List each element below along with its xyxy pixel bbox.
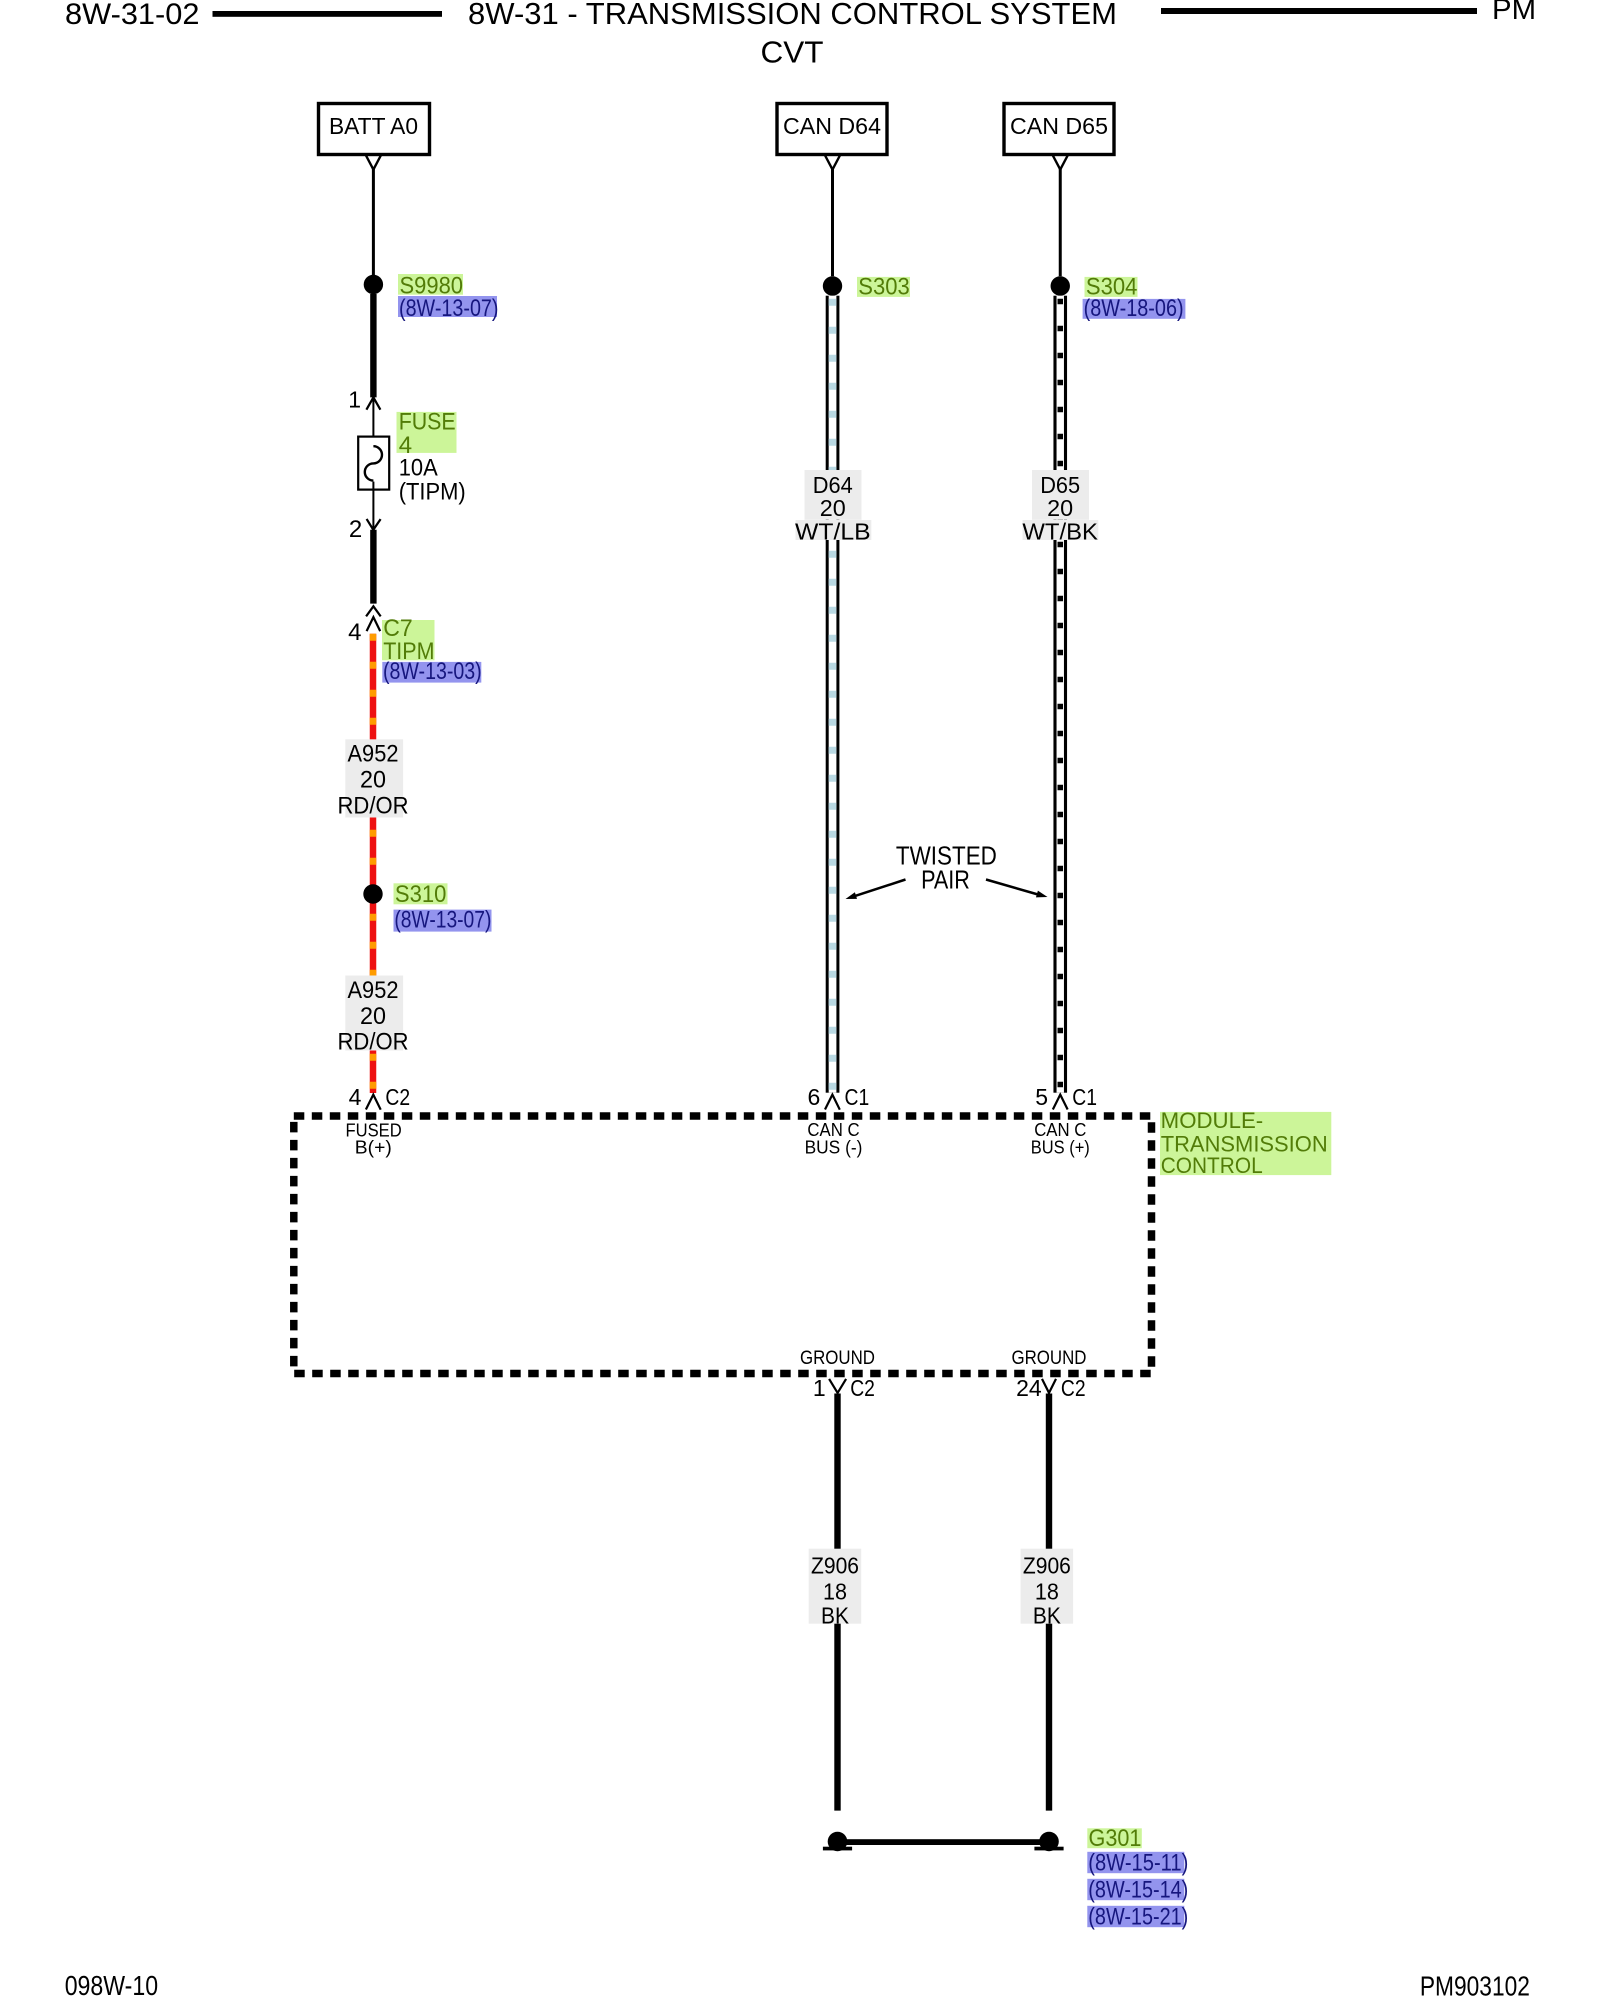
svg-text:PM: PM [1492, 0, 1536, 26]
svg-text:A952: A952 [348, 741, 399, 768]
pin function CAN C BUS (-) [805, 1120, 863, 1158]
svg-text:RD/OR: RD/OR [338, 793, 409, 820]
label S310 [394, 881, 448, 908]
svg-text:20: 20 [360, 767, 386, 794]
svg-text:S303: S303 [858, 273, 910, 300]
svg-text:5: 5 [1035, 1084, 1048, 1110]
reference (8W-18-06) for S304 [1083, 295, 1186, 322]
svg-text:(8W-13-07): (8W-13-07) [394, 907, 491, 934]
wire label D65 20 WT/BK [1022, 470, 1098, 545]
svg-text:18: 18 [823, 1579, 847, 1605]
wire fuse to pin 2 [372, 482, 374, 530]
connector chevron pin 1 C2 [829, 1379, 846, 1393]
svg-text:4: 4 [349, 1084, 362, 1110]
svg-text:C1: C1 [1072, 1084, 1097, 1110]
svg-text:(8W-15-21): (8W-15-21) [1088, 1904, 1188, 1931]
svg-text:CAN D65: CAN D65 [1010, 113, 1108, 139]
svg-text:20: 20 [360, 1003, 386, 1030]
wire label Z906 18 BK (right) [1021, 1549, 1074, 1629]
ground symbol bar (left) [823, 1847, 852, 1851]
svg-text:RD/OR: RD/OR [338, 1029, 409, 1056]
connector chevron pin 24 C2 [1042, 1379, 1056, 1393]
svg-text:PAIR: PAIR [921, 864, 970, 894]
label FUSE 4 [397, 408, 457, 458]
connector V under CAN D64 [825, 156, 840, 170]
svg-text:A952: A952 [348, 977, 399, 1004]
node BATT A0 box [319, 104, 430, 155]
svg-text:8W-31-02: 8W-31-02 [65, 0, 200, 31]
wire pin 1 to fuse [372, 397, 374, 446]
svg-text:8W-31 - TRANSMISSION CONTROL S: 8W-31 - TRANSMISSION CONTROL SYSTEM [468, 0, 1117, 31]
svg-text:(TIPM): (TIPM) [399, 479, 466, 506]
svg-text:CVT: CVT [761, 34, 824, 69]
reference (8W-13-07) for S310 [394, 907, 492, 934]
connector chevron pin 2 [367, 519, 381, 530]
svg-text:S310: S310 [395, 881, 447, 908]
node CAN D65 box [1004, 104, 1114, 155]
svg-text:C2: C2 [850, 1375, 875, 1401]
wire BATT A0 to splice S9980 [372, 168, 375, 276]
svg-text:20: 20 [820, 495, 846, 521]
connector V under BATT A0 [366, 156, 381, 170]
svg-text:20: 20 [1047, 495, 1073, 521]
svg-text:18: 18 [1035, 1579, 1059, 1605]
pin function FUSED B(+) [346, 1121, 402, 1158]
header left rule [213, 11, 443, 17]
leader arrow to D64 wire [846, 880, 906, 900]
svg-text:Z906: Z906 [1023, 1553, 1071, 1579]
svg-text:CONTROL: CONTROL [1161, 1153, 1263, 1178]
svg-text:CAN D64: CAN D64 [783, 113, 881, 139]
svg-text:BUS (+): BUS (+) [1031, 1137, 1090, 1157]
svg-text:10A: 10A [399, 455, 438, 482]
svg-text:MODULE-: MODULE- [1161, 1108, 1264, 1133]
label S9980 [398, 273, 463, 300]
connector chevron pin 5 C1 [1053, 1095, 1068, 1110]
svg-text:(8W-13-07): (8W-13-07) [399, 295, 499, 322]
wire CAN D65 to splice S304 [1059, 168, 1062, 276]
label S303 [857, 273, 910, 300]
svg-text:6: 6 [808, 1084, 821, 1110]
svg-text:BK: BK [1033, 1603, 1062, 1629]
module-transmission control dashed box [294, 1116, 1152, 1374]
ground terminal dot (right) [1039, 1832, 1059, 1852]
svg-text:(8W-15-11): (8W-15-11) [1088, 1850, 1188, 1877]
svg-text:(8W-13-03): (8W-13-03) [383, 658, 482, 685]
svg-text:D64: D64 [813, 472, 853, 498]
reference (8W-15-21) for G301 [1087, 1904, 1188, 1931]
svg-text:PM903102: PM903102 [1420, 1970, 1530, 2000]
svg-text:098W-10: 098W-10 [65, 1970, 158, 2000]
svg-text:BATT A0: BATT A0 [329, 113, 418, 139]
fuse element S-curve [365, 446, 382, 480]
svg-text:1: 1 [813, 1375, 826, 1401]
splice S304 [1051, 276, 1070, 295]
wire label A952 20 RD/OR (lower) [338, 976, 409, 1056]
wire Z906 18 BK (right) [1046, 1394, 1052, 1811]
connector chevron pin 1 [366, 397, 380, 409]
svg-text:2: 2 [349, 516, 362, 543]
svg-text:4: 4 [348, 619, 361, 646]
svg-text:D65: D65 [1040, 472, 1080, 498]
fuse FUSE 4 10A (TIPM) box [358, 437, 389, 490]
splice S9980 [364, 275, 383, 294]
header right rule [1161, 8, 1477, 14]
svg-text:1: 1 [348, 387, 361, 413]
svg-text:C1: C1 [845, 1084, 870, 1110]
wire label Z906 18 BK (left) [809, 1549, 862, 1629]
svg-text:B(+): B(+) [355, 1137, 392, 1157]
wire label A952 20 RD/OR (upper) [338, 739, 409, 819]
ground G301 label [1087, 1825, 1142, 1852]
label C7 TIPM [382, 615, 435, 665]
svg-text:WT/BK: WT/BK [1022, 519, 1098, 545]
ground symbol bar (right) [1034, 1847, 1063, 1851]
ground bus wire [835, 1839, 1051, 1845]
svg-text:BK: BK [821, 1603, 850, 1629]
connector chevron pin 4 C2 [366, 1095, 381, 1110]
svg-text:GROUND: GROUND [1012, 1348, 1087, 1369]
wire A952 20 RD/OR [370, 634, 377, 1093]
wire pin 2 to connector C7 (thick) [370, 530, 376, 604]
svg-text:(8W-18-06): (8W-18-06) [1084, 295, 1184, 322]
reference (8W-15-14) for G301 [1087, 1877, 1188, 1904]
connector C7 double chevron [366, 606, 381, 631]
wire label D64 20 WT/LB [795, 470, 871, 545]
annotation TWISTED PAIR [896, 841, 997, 895]
svg-text:G301: G301 [1089, 1825, 1142, 1852]
label S304 [1085, 273, 1138, 300]
svg-text:C2: C2 [1061, 1375, 1086, 1401]
wire CAN D64 to splice S303 [831, 168, 834, 276]
reference (8W-15-11) for G301 [1087, 1850, 1188, 1877]
wire Z906 18 BK (left) [834, 1394, 840, 1811]
pin function CAN C BUS (+) [1031, 1120, 1090, 1158]
svg-text:GROUND: GROUND [800, 1348, 875, 1369]
svg-text:BUS (-): BUS (-) [805, 1137, 863, 1157]
leader arrow to D65 wire [986, 880, 1048, 898]
connector V under CAN D65 [1053, 156, 1068, 170]
svg-text:WT/LB: WT/LB [795, 519, 871, 545]
wire D65 20 WT/BK (twisted pair) [1053, 296, 1067, 1093]
reference (8W-13-07) for S9980 [398, 295, 499, 322]
label MODULE-TRANSMISSION CONTROL [1160, 1108, 1331, 1178]
reference (8W-13-03) for C7 [382, 658, 481, 685]
svg-text:C2: C2 [385, 1084, 410, 1110]
svg-text:Z906: Z906 [811, 1553, 859, 1579]
svg-text:24: 24 [1016, 1375, 1042, 1401]
wire D64 20 WT/LB (twisted pair) [826, 296, 840, 1093]
svg-text:(8W-15-14): (8W-15-14) [1088, 1877, 1188, 1904]
splice S310 [363, 884, 382, 903]
wire splice S9980 to fuse pin 1 (thick) [370, 294, 376, 397]
connector chevron pin 6 C1 [825, 1095, 840, 1110]
splice S303 [823, 276, 842, 295]
ground terminal dot (left) [828, 1832, 848, 1852]
node CAN D64 box [777, 104, 887, 155]
